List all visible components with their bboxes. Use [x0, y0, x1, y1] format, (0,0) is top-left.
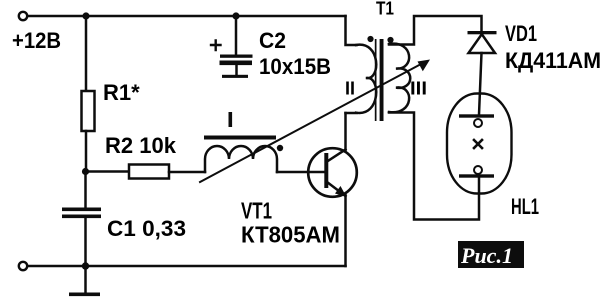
winding II: [356, 45, 376, 113]
node dot winding I: [277, 145, 283, 151]
terminal 0V: [19, 262, 27, 270]
dot secondary T1: [387, 37, 393, 43]
wire primary top lead T1: [346, 16, 357, 45]
wire collector: [344, 113, 347, 150]
wire secondary top lead to VD1: [389, 16, 482, 45]
wire R2 to winding I: [169, 171, 205, 174]
wire secondary bottom loop to lamp: [389, 113, 479, 220]
lamp HL1: [447, 94, 512, 194]
winding III: [389, 44, 410, 113]
core T1: [375, 39, 377, 121]
node junction top-left: [82, 12, 89, 19]
svg-text:III: III: [410, 79, 427, 99]
svg-text:10x15В: 10x15В: [259, 54, 331, 79]
svg-text:+12В: +12В: [12, 28, 61, 53]
svg-text:VD1: VD1: [505, 21, 537, 46]
node junction R2/C1: [82, 168, 89, 175]
svg-text:КТ805АМ: КТ805АМ: [241, 222, 340, 248]
wire emitter: [344, 195, 347, 266]
node junction bottom: [82, 262, 89, 269]
lamp top electrode: [459, 114, 494, 117]
svg-text:C2: C2: [259, 28, 286, 53]
svg-text:II: II: [345, 79, 355, 99]
capacitor C2: [220, 55, 253, 66]
dot primary T1: [367, 36, 373, 42]
label I: [229, 112, 233, 127]
figure label box: [458, 241, 524, 268]
inductor winding I: [205, 146, 277, 172]
svg-text:КД411АМ: КД411АМ: [505, 48, 601, 73]
wire bottom rail: [27, 265, 346, 268]
capacitor C1: [62, 208, 101, 219]
diode VD1: [468, 31, 497, 34]
core of winding I: [204, 136, 276, 140]
wire C2 top lead: [235, 16, 238, 54]
lamp x mark: [474, 140, 482, 148]
tuning arrow: [200, 63, 423, 182]
wire primary bottom lead T1: [346, 112, 357, 115]
svg-text:R2 10k: R2 10k: [105, 133, 177, 158]
svg-text:T1: T1: [376, 0, 394, 19]
wire R1 bottom lead: [85, 131, 88, 172]
svg-text:R1*: R1*: [103, 80, 140, 105]
resistor R2: [129, 165, 169, 179]
svg-text:VT1: VT1: [241, 198, 272, 224]
ground: [84, 266, 87, 293]
svg-text:C1 0,33: C1 0,33: [107, 216, 186, 241]
svg-text:HL1: HL1: [511, 194, 539, 219]
svg-text:Рис.1: Рис.1: [460, 243, 513, 268]
wire R1 top lead: [85, 16, 88, 91]
resistor R1: [82, 91, 95, 131]
polarity + for C2: [211, 41, 221, 51]
wire VD1 to lamp: [479, 53, 482, 115]
wire R2 left lead: [86, 170, 130, 173]
wire C1 bottom lead: [84, 218, 87, 266]
transistor VT1: [308, 148, 357, 197]
wire winding I to base: [277, 171, 324, 174]
lamp bottom electrode: [474, 166, 482, 174]
node junction C2 top: [232, 12, 239, 19]
wire C1 top lead: [84, 172, 87, 208]
wire top rail: [27, 15, 346, 18]
terminal +12V: [19, 12, 27, 20]
